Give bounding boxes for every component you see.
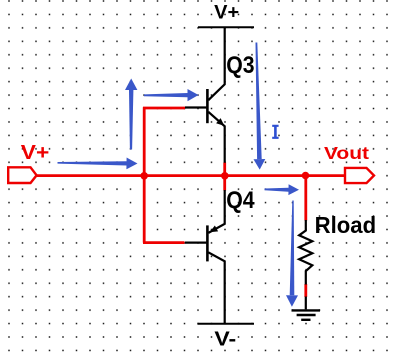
- arrow: load current down through Rload: [290, 201, 295, 296]
- wire: V+ vertical branch (red): [143, 107, 146, 242]
- wire: Rload to ground (red): [304, 284, 307, 297]
- Q4 emitter arrowhead: [210, 226, 219, 233]
- wire: main horizontal output net (red): [35, 174, 346, 177]
- resistor Rload: [299, 220, 312, 285]
- wire: node to Q4 emitter (red): [223, 176, 226, 191]
- wire: branch to Q3 base (red): [143, 107, 185, 110]
- input port V+: [8, 167, 36, 183]
- wire: branch to Q4 base (red): [143, 241, 185, 244]
- node: output junction: [221, 172, 229, 180]
- node: Rload junction: [302, 172, 310, 180]
- svg-text:V+: V+: [21, 141, 50, 164]
- wire: node down to Rload (red): [304, 176, 307, 221]
- arrow: current I down through Q3: [256, 43, 262, 160]
- transistor Q4 (PNP): [185, 190, 225, 324]
- output port Vout: [345, 168, 374, 183]
- V- power rail: [198, 323, 255, 325]
- svg-text:Rload: Rload: [315, 212, 377, 238]
- svg-text:V+: V+: [214, 2, 239, 24]
- wire: Q3 emitter to node (red): [223, 163, 226, 176]
- arrow: into Q3 base: [144, 93, 188, 97]
- svg-text:Q3: Q3: [226, 52, 254, 79]
- ground: [292, 297, 321, 320]
- arrow: into Q4 base: [265, 188, 289, 192]
- arrow: input signal right: [58, 161, 127, 165]
- arrow: up toward Q3 branch: [129, 90, 133, 150]
- V+ power rail: [198, 26, 254, 28]
- svg-text:V-: V-: [214, 327, 236, 350]
- transistor Q3 (NPN): [185, 27, 225, 163]
- node: input branch junction: [140, 172, 148, 180]
- current label I: [272, 125, 278, 139]
- svg-text:Vout: Vout: [324, 143, 369, 163]
- Q3 emitter arrowhead: [216, 118, 224, 126]
- svg-text:Q4: Q4: [226, 187, 255, 214]
